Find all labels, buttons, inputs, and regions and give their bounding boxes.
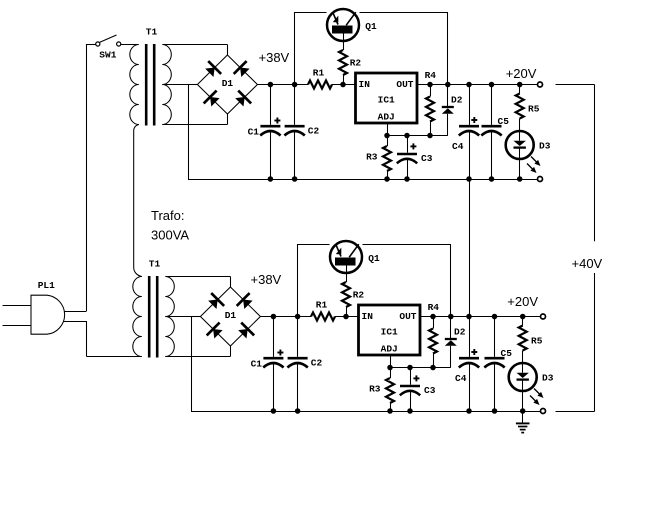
- svg-text:C5: C5: [498, 116, 510, 127]
- svg-text:R5: R5: [531, 336, 543, 347]
- svg-text:D3: D3: [542, 373, 554, 384]
- svg-text:C4: C4: [455, 373, 467, 384]
- svg-text:R5: R5: [528, 104, 540, 115]
- svg-text:SW1: SW1: [99, 50, 116, 61]
- svg-text:R4: R4: [428, 302, 440, 313]
- svg-text:R2: R2: [353, 290, 365, 301]
- svg-text:R2: R2: [350, 58, 362, 69]
- svg-text:OUT: OUT: [399, 311, 416, 322]
- svg-text:+20V: +20V: [507, 294, 538, 309]
- svg-text:PL1: PL1: [38, 280, 55, 291]
- svg-text:C2: C2: [308, 126, 320, 137]
- svg-text:ADJ: ADJ: [381, 343, 398, 354]
- svg-text:R1: R1: [313, 68, 325, 79]
- svg-text:R3: R3: [366, 151, 378, 162]
- svg-text:T1: T1: [149, 259, 161, 270]
- svg-text:T1: T1: [146, 27, 158, 38]
- svg-text:D1: D1: [225, 310, 237, 321]
- svg-text:C4: C4: [452, 141, 464, 152]
- svg-text:IN: IN: [362, 311, 374, 322]
- svg-text:R1: R1: [316, 300, 328, 311]
- svg-text:R3: R3: [369, 383, 381, 394]
- svg-text:D2: D2: [454, 327, 466, 338]
- svg-text:D2: D2: [451, 95, 463, 106]
- svg-text:R4: R4: [425, 70, 437, 81]
- svg-text:Trafo:: Trafo:: [151, 208, 184, 223]
- svg-text:+38V: +38V: [251, 272, 282, 287]
- svg-text:300VA: 300VA: [151, 228, 189, 243]
- svg-text:C1: C1: [248, 127, 260, 138]
- svg-text:C2: C2: [311, 358, 323, 369]
- svg-text:IC1: IC1: [378, 95, 395, 106]
- svg-text:IC1: IC1: [381, 327, 398, 338]
- svg-text:D3: D3: [539, 141, 551, 152]
- svg-text:C3: C3: [424, 385, 436, 396]
- svg-text:IN: IN: [359, 79, 371, 90]
- svg-text:+20V: +20V: [506, 66, 537, 81]
- svg-text:C3: C3: [421, 153, 433, 164]
- svg-text:ADJ: ADJ: [378, 111, 395, 122]
- svg-text:C5: C5: [501, 348, 513, 359]
- svg-text:D1: D1: [222, 78, 234, 89]
- svg-text:OUT: OUT: [396, 79, 413, 90]
- svg-text:C1: C1: [251, 359, 263, 370]
- svg-text:+38V: +38V: [259, 50, 290, 65]
- svg-text:Q1: Q1: [368, 253, 380, 264]
- svg-text:+40V: +40V: [572, 256, 603, 271]
- svg-text:Q1: Q1: [365, 21, 377, 32]
